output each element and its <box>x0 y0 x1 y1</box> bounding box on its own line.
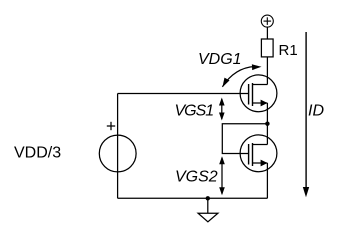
wire R1 to M1 drain <box>266 57 268 85</box>
junction dot node A <box>265 122 269 126</box>
resistor R1 <box>261 39 273 57</box>
wire M1 gate <box>118 93 249 95</box>
VDG1 curved arrow <box>220 64 262 89</box>
svg-text:ID: ID <box>308 103 324 120</box>
svg-text:R1: R1 <box>279 42 298 59</box>
VGS2 measurement arrow <box>219 156 225 195</box>
supply symbol (+) top <box>261 15 273 27</box>
svg-text:VDD/3: VDD/3 <box>14 144 61 161</box>
ground <box>198 198 218 222</box>
plus sign of V1 <box>107 122 115 130</box>
junction dot ground <box>206 196 210 200</box>
svg-text:VGS2: VGS2 <box>175 169 218 186</box>
voltage source V1 VDD/3 <box>99 135 136 172</box>
wire M2 source <box>266 163 268 198</box>
svg-text:VGS1: VGS1 <box>175 103 214 120</box>
wire M2 gate feedback <box>222 124 267 154</box>
ID current arrow <box>303 32 309 197</box>
wire M1 source to M2 drain <box>266 103 268 145</box>
bottom wire <box>118 197 268 199</box>
svg-text:VDG1: VDG1 <box>198 51 242 68</box>
transistor M2 <box>240 135 277 172</box>
transistor M1 <box>240 75 277 112</box>
wire left vertical <box>117 94 119 199</box>
VGS1 measurement arrow <box>219 98 225 121</box>
wire supply to R1 <box>266 27 268 39</box>
